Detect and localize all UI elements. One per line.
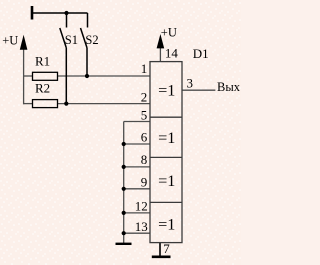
- svg-text:=1: =1: [158, 81, 175, 100]
- svg-text:8: 8: [141, 152, 148, 167]
- svg-text:S2: S2: [85, 33, 98, 47]
- svg-text:+U: +U: [2, 34, 18, 48]
- svg-text:S1: S1: [65, 33, 78, 47]
- svg-text:2: 2: [141, 89, 148, 104]
- svg-text:7: 7: [163, 241, 170, 256]
- svg-text:D1: D1: [193, 46, 209, 61]
- svg-text:3: 3: [187, 75, 194, 90]
- svg-text:9: 9: [141, 175, 148, 190]
- svg-text:R2: R2: [35, 81, 50, 96]
- svg-text:14: 14: [165, 46, 179, 61]
- svg-text:6: 6: [141, 130, 148, 145]
- svg-text:13: 13: [135, 219, 148, 234]
- svg-text:=1: =1: [158, 128, 175, 147]
- svg-text:=1: =1: [158, 171, 175, 190]
- svg-text:1: 1: [141, 61, 148, 76]
- svg-text:5: 5: [141, 108, 148, 123]
- svg-text:12: 12: [135, 199, 148, 214]
- svg-text:R1: R1: [35, 54, 50, 69]
- svg-text:+U: +U: [161, 26, 177, 40]
- svg-text:=1: =1: [158, 214, 175, 233]
- svg-text:Вых: Вых: [217, 80, 241, 94]
